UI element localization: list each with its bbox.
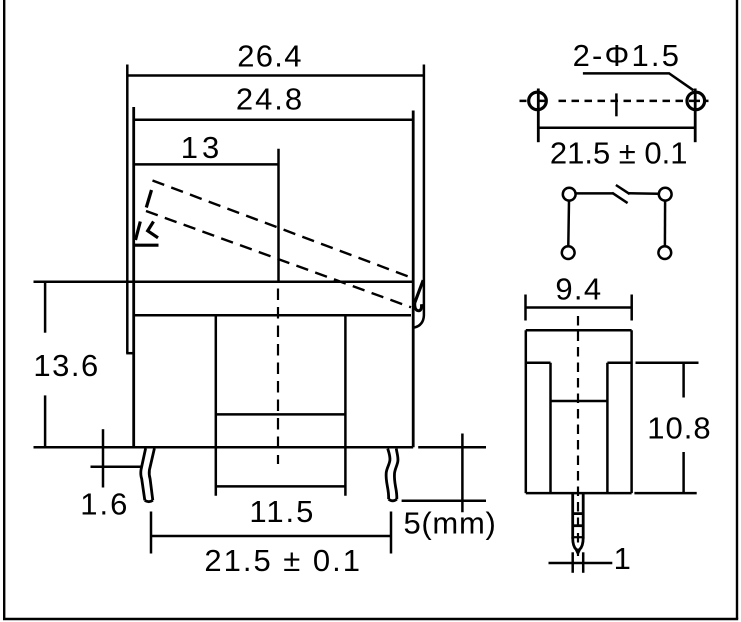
lever tip hook [415, 303, 422, 311]
keyway right edge [277, 149, 280, 282]
wire right [664, 201, 667, 246]
inner step line [551, 400, 608, 403]
window left edge [215, 315, 218, 496]
svg-text:2-Φ1.5: 2-Φ1.5 [573, 38, 682, 73]
svg-text:11.5: 11.5 [249, 494, 315, 529]
side view left edge [525, 330, 528, 493]
top view centre tick [615, 93, 618, 116]
window bottom edge [216, 413, 346, 416]
dimension 9.4 [526, 271, 632, 320]
outer frame left edge [126, 65, 135, 354]
left terminal pin [141, 448, 155, 501]
svg-text:1.6: 1.6 [80, 487, 129, 522]
break slash lower [612, 193, 627, 203]
motion arrow marks [134, 190, 159, 245]
svg-text:24.8: 24.8 [236, 81, 304, 116]
lever phantom line lower [146, 211, 411, 307]
inner left edge [549, 363, 552, 493]
svg-text:5(mm): 5(mm) [403, 506, 496, 541]
break slash upper [616, 185, 630, 194]
mounting hole left [529, 92, 547, 110]
pin circle bottom-left [562, 246, 575, 259]
svg-text:26.4: 26.4 [237, 39, 303, 74]
outer frame right edge with bottom curl [414, 65, 424, 328]
body band bottom edge [134, 314, 411, 317]
side view centre line [577, 316, 579, 556]
wire left [567, 201, 570, 246]
svg-text:13.6: 13.6 [33, 348, 99, 383]
mounting hole right [687, 92, 705, 110]
dimension 21.5±0.1 top [538, 128, 695, 171]
inner frame right edge [412, 111, 415, 448]
svg-text:21.5 ± 0.1: 21.5 ± 0.1 [550, 135, 688, 170]
inner right edge [606, 363, 609, 493]
blade right segment [629, 192, 659, 195]
leader line [583, 73, 694, 90]
hole right axis [694, 89, 697, 143]
inner frame left edge [132, 107, 135, 447]
side view top edge [526, 329, 632, 332]
side pin [573, 493, 584, 553]
dimension 1 [549, 541, 631, 576]
dimension 13 [134, 130, 279, 165]
shoulder right [607, 362, 631, 365]
window right edge [344, 315, 347, 496]
svg-text:21.5 ± 0.1: 21.5 ± 0.1 [204, 543, 362, 578]
body band top edge [34, 280, 414, 283]
side view bottom edge [526, 492, 632, 495]
hole left axis [537, 89, 540, 143]
dimension 5(mm) [402, 434, 497, 541]
dimension 1.6 [80, 429, 141, 521]
pin circle bottom-right [658, 246, 671, 259]
side view right edge [630, 330, 633, 493]
dimension 24.8 [134, 81, 414, 120]
svg-text:13: 13 [181, 130, 223, 165]
dimension 13.6 [33, 282, 99, 447]
dimension 26.4 [127, 39, 424, 76]
lever phantom line upper [153, 181, 411, 278]
blade left segment [576, 192, 614, 195]
centre line front view [277, 289, 279, 465]
lever tip diagonal [415, 280, 424, 303]
dimension 10.8 [634, 363, 711, 493]
svg-text:1: 1 [614, 541, 631, 576]
dimension 11.5 [216, 486, 346, 528]
svg-text:10.8: 10.8 [647, 411, 711, 446]
top view centre line [520, 100, 709, 103]
svg-text:9.4: 9.4 [555, 271, 602, 306]
contact circle top-right [659, 188, 672, 201]
dimension 21.5±0.1 bottom [151, 512, 391, 579]
contact circle top-left [563, 188, 576, 201]
body bottom edge [34, 446, 487, 449]
right terminal pin [386, 449, 398, 501]
shoulder left [526, 362, 551, 365]
